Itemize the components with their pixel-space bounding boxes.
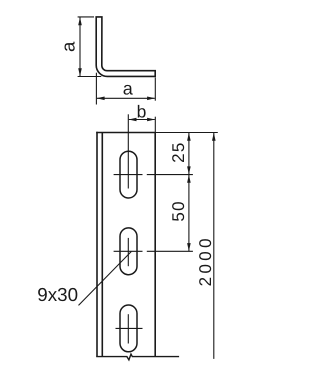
dimension a (vertical) arrow up [78, 17, 82, 25]
slot 2 centerline extension to 50 dimension [147, 250, 193, 252]
dimension a (vertical) dimension line [79, 18, 81, 77]
slot 1 horizontal centerline [114, 174, 143, 176]
dimension a (horizontal, below profile) extension line left [95, 73, 97, 105]
dimension a (vertical, left of profile) extension line top [78, 16, 94, 18]
slot 3 vertical centerline [127, 314, 129, 343]
slot hole 2 (9x30 obround) [120, 228, 137, 275]
dimension 50 dimension line [188, 175, 190, 251]
dimension 2000 arrow up [212, 133, 216, 141]
svg-text:b: b [137, 102, 147, 122]
slot 1 centerline extension to 25/50 dimension [147, 174, 193, 176]
dimension 25 arrow down [187, 166, 191, 174]
strip left edge [96, 132, 98, 357]
svg-text:25: 25 [169, 141, 188, 163]
strip fold line (bend edge) [101, 133, 103, 357]
dimension a (horizontal) arrow left [97, 97, 105, 101]
leader line from 9x30 label to slot 2 [79, 252, 132, 306]
dimension 2000 dimension line (broken at bottom, single top arrow) [213, 133, 215, 359]
dimension a (vertical) arrow down [78, 68, 82, 76]
slot hole 1 (9x30 obround) [120, 151, 137, 198]
slot 2 horizontal centerline [114, 250, 143, 252]
strip bottom edge with break symbol, extended right as extension line [96, 354, 179, 360]
slot 2 vertical centerline [127, 238, 129, 266]
dimension b arrow left [129, 118, 137, 122]
dimension b arrow right [147, 118, 155, 122]
svg-text:a: a [123, 79, 134, 99]
slot hole 3 (9x30 obround) [120, 305, 137, 352]
strip right edge [154, 133, 156, 357]
svg-text:2000: 2000 [196, 235, 215, 286]
svg-text:a: a [58, 41, 79, 52]
dimension 50 arrow up [187, 175, 191, 183]
dimension a (horizontal) extension line right [154, 78, 156, 101]
dimension b extension line right [154, 117, 156, 133]
dimension 25 arrow up [187, 133, 191, 141]
slot 1 vertical centerline (also extension line for b) [127, 114, 129, 188]
dimension 25 dimension line [188, 133, 190, 174]
svg-text:50: 50 [169, 200, 188, 222]
svg-text:9x30: 9x30 [37, 284, 78, 305]
L-angle profile cross-section (top view) [96, 17, 155, 77]
channel strip front view: top edge [96, 132, 155, 134]
slot 3 horizontal centerline [116, 327, 143, 329]
dimension a (horizontal) arrow right [147, 97, 155, 101]
dimension 50 arrow down [187, 243, 191, 251]
top edge extension line to the right (for 25 and 2000 dims) [155, 132, 218, 134]
dimension a (horizontal) dimension line [97, 97, 155, 99]
dimension b dimension line [129, 119, 155, 121]
dimension a (vertical) extension line bottom [78, 76, 102, 78]
